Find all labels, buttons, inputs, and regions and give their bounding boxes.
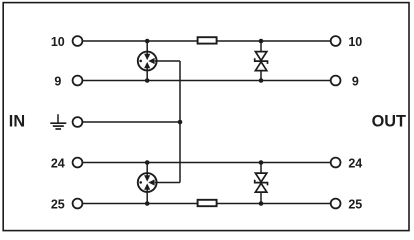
svg-text:10: 10 xyxy=(51,35,65,49)
svg-text:25: 25 xyxy=(51,198,65,212)
svg-text:24: 24 xyxy=(348,157,362,171)
svg-text:IN: IN xyxy=(9,112,25,130)
svg-text:OUT: OUT xyxy=(372,112,406,130)
svg-text:9: 9 xyxy=(54,75,61,89)
svg-text:24: 24 xyxy=(51,157,65,171)
svg-text:25: 25 xyxy=(348,198,362,212)
svg-text:10: 10 xyxy=(348,35,362,49)
svg-text:9: 9 xyxy=(352,75,359,89)
